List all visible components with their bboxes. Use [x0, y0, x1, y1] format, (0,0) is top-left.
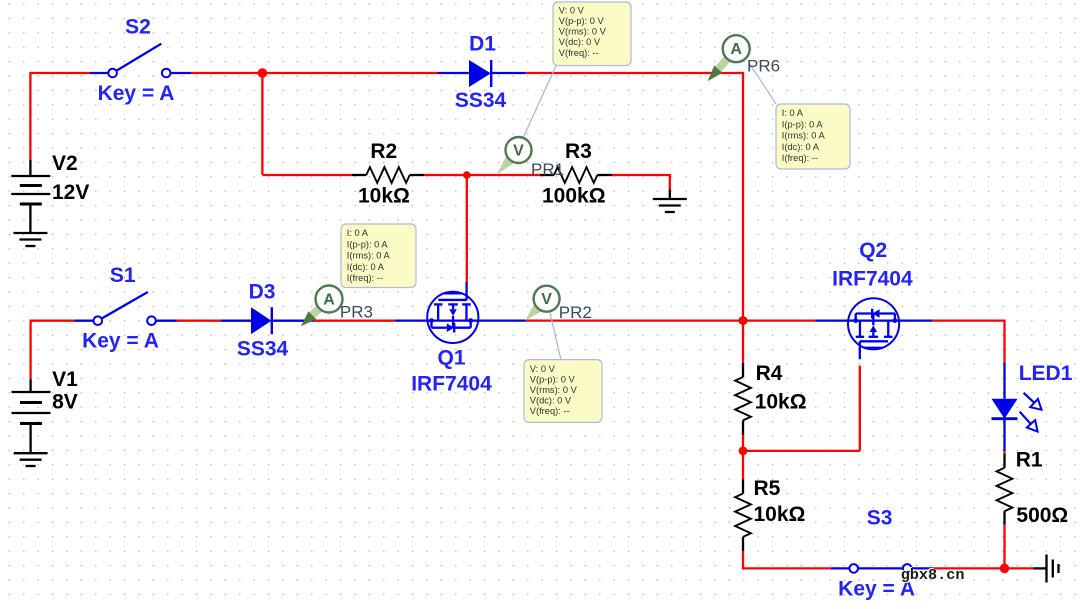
- svg-text:LED1: LED1: [1019, 362, 1073, 385]
- svg-text:PR6: PR6: [747, 57, 780, 76]
- svg-text:A: A: [730, 41, 742, 58]
- svg-text:Key = A: Key = A: [98, 82, 175, 105]
- svg-text:S1: S1: [110, 264, 136, 287]
- svg-text:SS34: SS34: [237, 338, 289, 361]
- svg-text:I(p-p): 0 A: I(p-p): 0 A: [347, 239, 389, 249]
- svg-text:8V: 8V: [52, 391, 78, 414]
- svg-text:V2: V2: [52, 152, 78, 175]
- svg-text:V(dc): 0 V: V(dc): 0 V: [559, 37, 601, 47]
- svg-text:IRF7404: IRF7404: [832, 268, 913, 291]
- svg-text:D3: D3: [249, 281, 276, 304]
- svg-text:S2: S2: [125, 16, 151, 39]
- svg-text:10kΩ: 10kΩ: [755, 390, 807, 413]
- svg-text:S3: S3: [867, 507, 893, 530]
- svg-text:I(freq): --: I(freq): --: [347, 273, 383, 283]
- svg-text:V(freq): --: V(freq): --: [530, 406, 570, 416]
- svg-text:V1: V1: [52, 368, 78, 391]
- svg-text:I(rms): 0 A: I(rms): 0 A: [782, 131, 826, 141]
- svg-text:PR1: PR1: [531, 160, 564, 179]
- svg-text:V: V: [541, 291, 552, 308]
- svg-text:100kΩ: 100kΩ: [542, 185, 606, 208]
- svg-text:12V: 12V: [52, 181, 89, 204]
- svg-text:10kΩ: 10kΩ: [754, 503, 806, 526]
- svg-text:500Ω: 500Ω: [1016, 504, 1068, 527]
- svg-text:Q1: Q1: [437, 347, 465, 370]
- svg-text:I(rms): 0 A: I(rms): 0 A: [347, 251, 391, 261]
- svg-text:SS34: SS34: [455, 89, 507, 112]
- svg-text:IRF7404: IRF7404: [411, 372, 492, 395]
- svg-text:Key = A: Key = A: [82, 330, 159, 353]
- svg-text:R3: R3: [565, 140, 592, 163]
- svg-text:I(dc): 0 A: I(dc): 0 A: [782, 142, 820, 152]
- svg-text:V: 0 V: V: 0 V: [530, 364, 556, 374]
- svg-text:gbx8.cn: gbx8.cn: [901, 566, 965, 584]
- svg-text:Q2: Q2: [859, 239, 887, 262]
- svg-text:I(freq): --: I(freq): --: [782, 153, 818, 163]
- svg-text:V(freq): --: V(freq): --: [559, 48, 599, 58]
- svg-text:I(p-p): 0 A: I(p-p): 0 A: [782, 119, 824, 129]
- svg-text:V: 0 V: V: 0 V: [559, 5, 585, 15]
- svg-text:V(dc): 0 V: V(dc): 0 V: [530, 395, 572, 405]
- svg-text:R2: R2: [370, 140, 397, 163]
- svg-text:R4: R4: [756, 362, 783, 385]
- svg-text:I(dc): 0 A: I(dc): 0 A: [347, 262, 385, 272]
- svg-text:R1: R1: [1016, 448, 1043, 471]
- svg-text:PR3: PR3: [340, 303, 373, 322]
- svg-text:I: 0 A: I: 0 A: [347, 228, 369, 238]
- svg-text:A: A: [323, 292, 335, 309]
- svg-text:V: V: [513, 143, 524, 160]
- svg-text:10kΩ: 10kΩ: [358, 184, 410, 207]
- svg-text:D1: D1: [469, 33, 496, 56]
- svg-text:V(rms): 0 V: V(rms): 0 V: [530, 385, 578, 395]
- svg-text:PR2: PR2: [559, 303, 592, 322]
- svg-text:I: 0 A: I: 0 A: [782, 108, 804, 118]
- svg-text:V(p-p): 0 V: V(p-p): 0 V: [559, 16, 605, 26]
- svg-text:V(rms): 0 V: V(rms): 0 V: [559, 27, 607, 37]
- svg-text:V(p-p): 0 V: V(p-p): 0 V: [530, 374, 576, 384]
- svg-text:R5: R5: [754, 477, 781, 500]
